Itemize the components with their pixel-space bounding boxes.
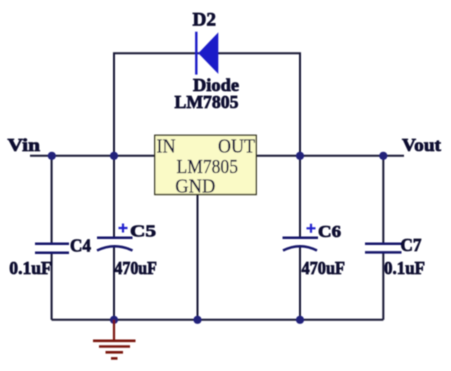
- svg-text:0.1uF: 0.1uF: [9, 258, 52, 278]
- svg-text:OUT: OUT: [218, 136, 255, 158]
- svg-text:GND: GND: [175, 176, 215, 198]
- svg-text:C7: C7: [401, 235, 422, 255]
- svg-text:470uF: 470uF: [114, 258, 156, 278]
- svg-text:D2: D2: [193, 10, 217, 31]
- svg-text:470uF: 470uF: [302, 258, 346, 278]
- svg-text:C5: C5: [130, 222, 156, 241]
- svg-text:C4: C4: [70, 236, 91, 256]
- svg-text:Vin: Vin: [8, 135, 41, 155]
- svg-text:IN: IN: [157, 136, 176, 158]
- svg-text:C6: C6: [318, 222, 341, 241]
- svg-text:LM7805: LM7805: [175, 92, 239, 112]
- svg-text:Vout: Vout: [402, 135, 441, 155]
- svg-text:0.1uF: 0.1uF: [384, 258, 425, 278]
